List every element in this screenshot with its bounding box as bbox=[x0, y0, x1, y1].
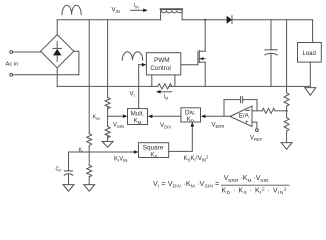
return rail right of shunt bbox=[169, 85, 310, 87]
svg-text:KD: KD bbox=[187, 116, 194, 123]
ground K_I chain bbox=[84, 185, 95, 192]
top rail middle segment bbox=[182, 19, 227, 21]
squarer box bbox=[139, 143, 169, 158]
MOSFET Q bbox=[198, 50, 205, 64]
ground divider chain bbox=[281, 143, 292, 150]
error amplifier E/A bbox=[230, 106, 252, 127]
svg-text:Control: Control bbox=[150, 65, 171, 72]
svg-text:IIN: IIN bbox=[134, 3, 140, 9]
capacitor C_F bbox=[64, 171, 73, 185]
svg-text:+: + bbox=[245, 119, 249, 126]
output voltage divider chain bbox=[286, 20, 288, 93]
Load box bbox=[298, 43, 322, 63]
svg-text:Load: Load bbox=[303, 51, 316, 57]
svg-text:VI: VI bbox=[130, 92, 135, 99]
K_I V_IN wire into squarer bbox=[89, 150, 138, 154]
bridge rectifier diamond bbox=[41, 35, 74, 68]
coupling winding arcs near PWM bbox=[122, 52, 142, 61]
ground K_IN chain bbox=[102, 142, 113, 148]
wire bridge bottom vertex down to return rail bbox=[56, 68, 58, 87]
return rail left of shunt bbox=[57, 85, 158, 87]
MOSFET drain wire bbox=[204, 20, 206, 51]
svg-text:KS: KS bbox=[150, 151, 157, 158]
svg-text:KIN: KIN bbox=[93, 115, 101, 121]
PWM Control box bbox=[146, 53, 180, 75]
I_M arrow bbox=[156, 90, 172, 94]
resistor lower bbox=[284, 118, 289, 131]
svg-text:VREF: VREF bbox=[250, 136, 263, 143]
AC input terminal lower bbox=[10, 73, 13, 76]
svg-text:Ac in: Ac in bbox=[6, 62, 19, 68]
PWM input arrow bbox=[139, 63, 147, 67]
svg-text:VERR: VERR bbox=[212, 123, 225, 130]
svg-text:Mult.: Mult. bbox=[131, 110, 145, 117]
load bottom wire bbox=[309, 62, 311, 86]
K_IN sense chain from top rail bbox=[107, 20, 109, 98]
wire bridge top vertex up to top rail bbox=[56, 20, 58, 35]
boost diode D bbox=[227, 16, 232, 24]
svg-text:KM: KM bbox=[134, 118, 142, 125]
wire bridge right vertex to lower AC bbox=[74, 51, 79, 75]
MOSFET gate wire from PWM bbox=[181, 64, 198, 66]
E/A feedback capacitor bbox=[224, 97, 257, 117]
E/A inverting input wire and resistor to divider bbox=[252, 108, 288, 113]
EMI choke winding arcs bbox=[62, 5, 81, 15]
V_I node wire (PWM input down to multiplier) bbox=[138, 65, 140, 109]
resistor K_IN upper bbox=[105, 97, 110, 108]
svg-text:PWM: PWM bbox=[154, 57, 170, 64]
fraction bar bbox=[221, 184, 289, 186]
svg-text:KSKI2VIN2: KSKI2VIN2 bbox=[184, 155, 210, 163]
shunt resistor R_M bbox=[158, 84, 172, 89]
svg-text:KD · KS · KI2 · VIN2: KD · KS · KI2 · VIN2 bbox=[222, 187, 288, 196]
bridge diode bbox=[53, 42, 62, 62]
ground under load bbox=[305, 88, 316, 96]
svg-text:KI: KI bbox=[79, 148, 84, 154]
output capacitor C bbox=[265, 20, 277, 87]
formula bbox=[153, 175, 287, 196]
V_SIN wire into multiplier bbox=[108, 114, 128, 118]
svg-text:VSIN: VSIN bbox=[113, 123, 124, 130]
svg-text:CF: CF bbox=[56, 167, 63, 173]
svg-text:VERR ·KM ·VSIN: VERR ·KM ·VSIN bbox=[224, 175, 269, 184]
junction dot bbox=[204, 19, 206, 21]
wire bbox=[13, 74, 79, 76]
resistor K_I upper bbox=[87, 134, 92, 146]
top rail left segment bbox=[57, 19, 160, 21]
boost inductor L bbox=[161, 9, 183, 20]
squarer output wire to divider bbox=[169, 126, 193, 151]
V_DIV wire from divider to multiplier bbox=[148, 115, 181, 119]
svg-text:IM: IM bbox=[164, 94, 169, 100]
V_ERR wire from E/A to divider bbox=[201, 115, 230, 119]
MOSFET source wire down to return rail bbox=[204, 62, 206, 86]
svg-text:VIN: VIN bbox=[112, 7, 120, 15]
resistor upper bbox=[284, 93, 289, 106]
divider box bbox=[181, 108, 201, 122]
svg-text:Square: Square bbox=[143, 144, 164, 151]
resistor K_IN lower bbox=[105, 127, 110, 138]
ground under C_F bbox=[63, 185, 74, 192]
svg-text:VI = VDIV ·KM ·VSIN =: VI = VDIV ·KM ·VSIN = bbox=[153, 181, 219, 190]
K_I sense chain from top rail bbox=[88, 20, 90, 134]
top rail right segment bbox=[232, 19, 313, 21]
svg-text:VDIV: VDIV bbox=[160, 123, 171, 130]
PWM sense stubs to shunt bbox=[151, 75, 153, 87]
multiplier box U bbox=[128, 109, 148, 125]
AC input terminal upper bbox=[10, 51, 13, 54]
load wire from top rail bbox=[312, 20, 314, 43]
I_IN arrow bbox=[130, 9, 147, 13]
resistor K_I lower bbox=[87, 165, 92, 177]
wire bbox=[13, 51, 41, 53]
svg-text:KIVIN: KIVIN bbox=[114, 157, 127, 164]
E/A non-inverting input to V_REF bbox=[252, 122, 257, 129]
C_F filter branch bbox=[69, 152, 90, 171]
